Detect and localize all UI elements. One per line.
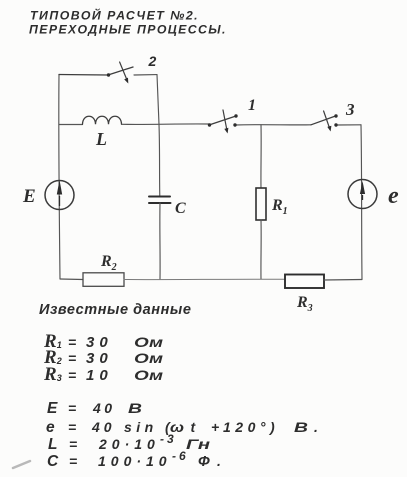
resistor R2 body xyxy=(83,273,124,287)
switch S1 right contact dot xyxy=(233,123,236,126)
capacitor C bottom plate xyxy=(149,202,171,204)
wire right vertical xyxy=(361,125,362,280)
switch S3 blade tip dot xyxy=(334,114,337,117)
wire bottom left xyxy=(60,278,83,281)
capacitor C top plate xyxy=(149,196,170,198)
svg-text:3: 3 xyxy=(345,100,355,119)
switch S1 blade xyxy=(209,116,236,125)
wire capacitor branch upper xyxy=(158,125,161,197)
switch S3 right wire xyxy=(336,124,361,126)
svg-text:ТИПОВОЙ РАСЧЕТ №2.: ТИПОВОЙ РАСЧЕТ №2. xyxy=(30,7,199,23)
switch S3 arrow head xyxy=(327,126,331,132)
switch S1 blade tip dot xyxy=(234,114,237,117)
resistor R1 body xyxy=(256,188,266,220)
source E circle xyxy=(45,181,74,210)
source e circle xyxy=(348,180,377,209)
resistor R3 body xyxy=(285,275,324,289)
wire upper-loop right vertical xyxy=(157,75,159,125)
faint pencil smudge bottom-left xyxy=(13,461,30,468)
source e arrow xyxy=(362,195,364,200)
svg-text:ПЕРЕХОДНЫЕ ПРОЦЕССЫ.: ПЕРЕХОДНЫЕ ПРОЦЕССЫ. xyxy=(29,23,227,37)
switch S3 blade xyxy=(311,116,336,125)
svg-text:1: 1 xyxy=(248,97,256,114)
wire left vertical xyxy=(59,75,60,280)
wire bottom right xyxy=(324,279,362,282)
svg-text:C: C xyxy=(175,200,186,217)
svg-text:E: E xyxy=(22,186,36,207)
switch S2 left contact dot xyxy=(107,73,110,76)
svg-text:Известные данные: Известные данные xyxy=(39,302,191,318)
wire R1 branch lower xyxy=(260,220,262,279)
switch S3 actuator slash xyxy=(324,111,330,128)
svg-text:e: e xyxy=(388,183,399,209)
switch S2 actuator slash xyxy=(120,62,127,80)
switch S3 contact dot xyxy=(334,123,337,126)
switch S1 arrow head xyxy=(224,128,228,134)
wire R1 branch upper xyxy=(260,125,262,188)
wire top left xyxy=(59,74,108,77)
source E arrow xyxy=(59,196,61,206)
switch S2 right wire xyxy=(134,74,157,76)
wire inductor to switch S1 xyxy=(122,123,210,126)
wire bottom middle xyxy=(124,278,285,280)
inductor L coils xyxy=(83,116,122,124)
switch S2 blade xyxy=(108,67,133,75)
svg-text:L: L xyxy=(95,129,107,149)
switch S1 right wire xyxy=(235,124,311,126)
wire inductor row left xyxy=(59,124,83,126)
wire capacitor branch lower xyxy=(159,203,161,279)
switch S1 left contact dot xyxy=(208,123,211,126)
svg-text:2: 2 xyxy=(148,53,157,69)
switch S2 arrow head xyxy=(124,78,128,84)
switch S1 actuator slash xyxy=(223,110,227,128)
